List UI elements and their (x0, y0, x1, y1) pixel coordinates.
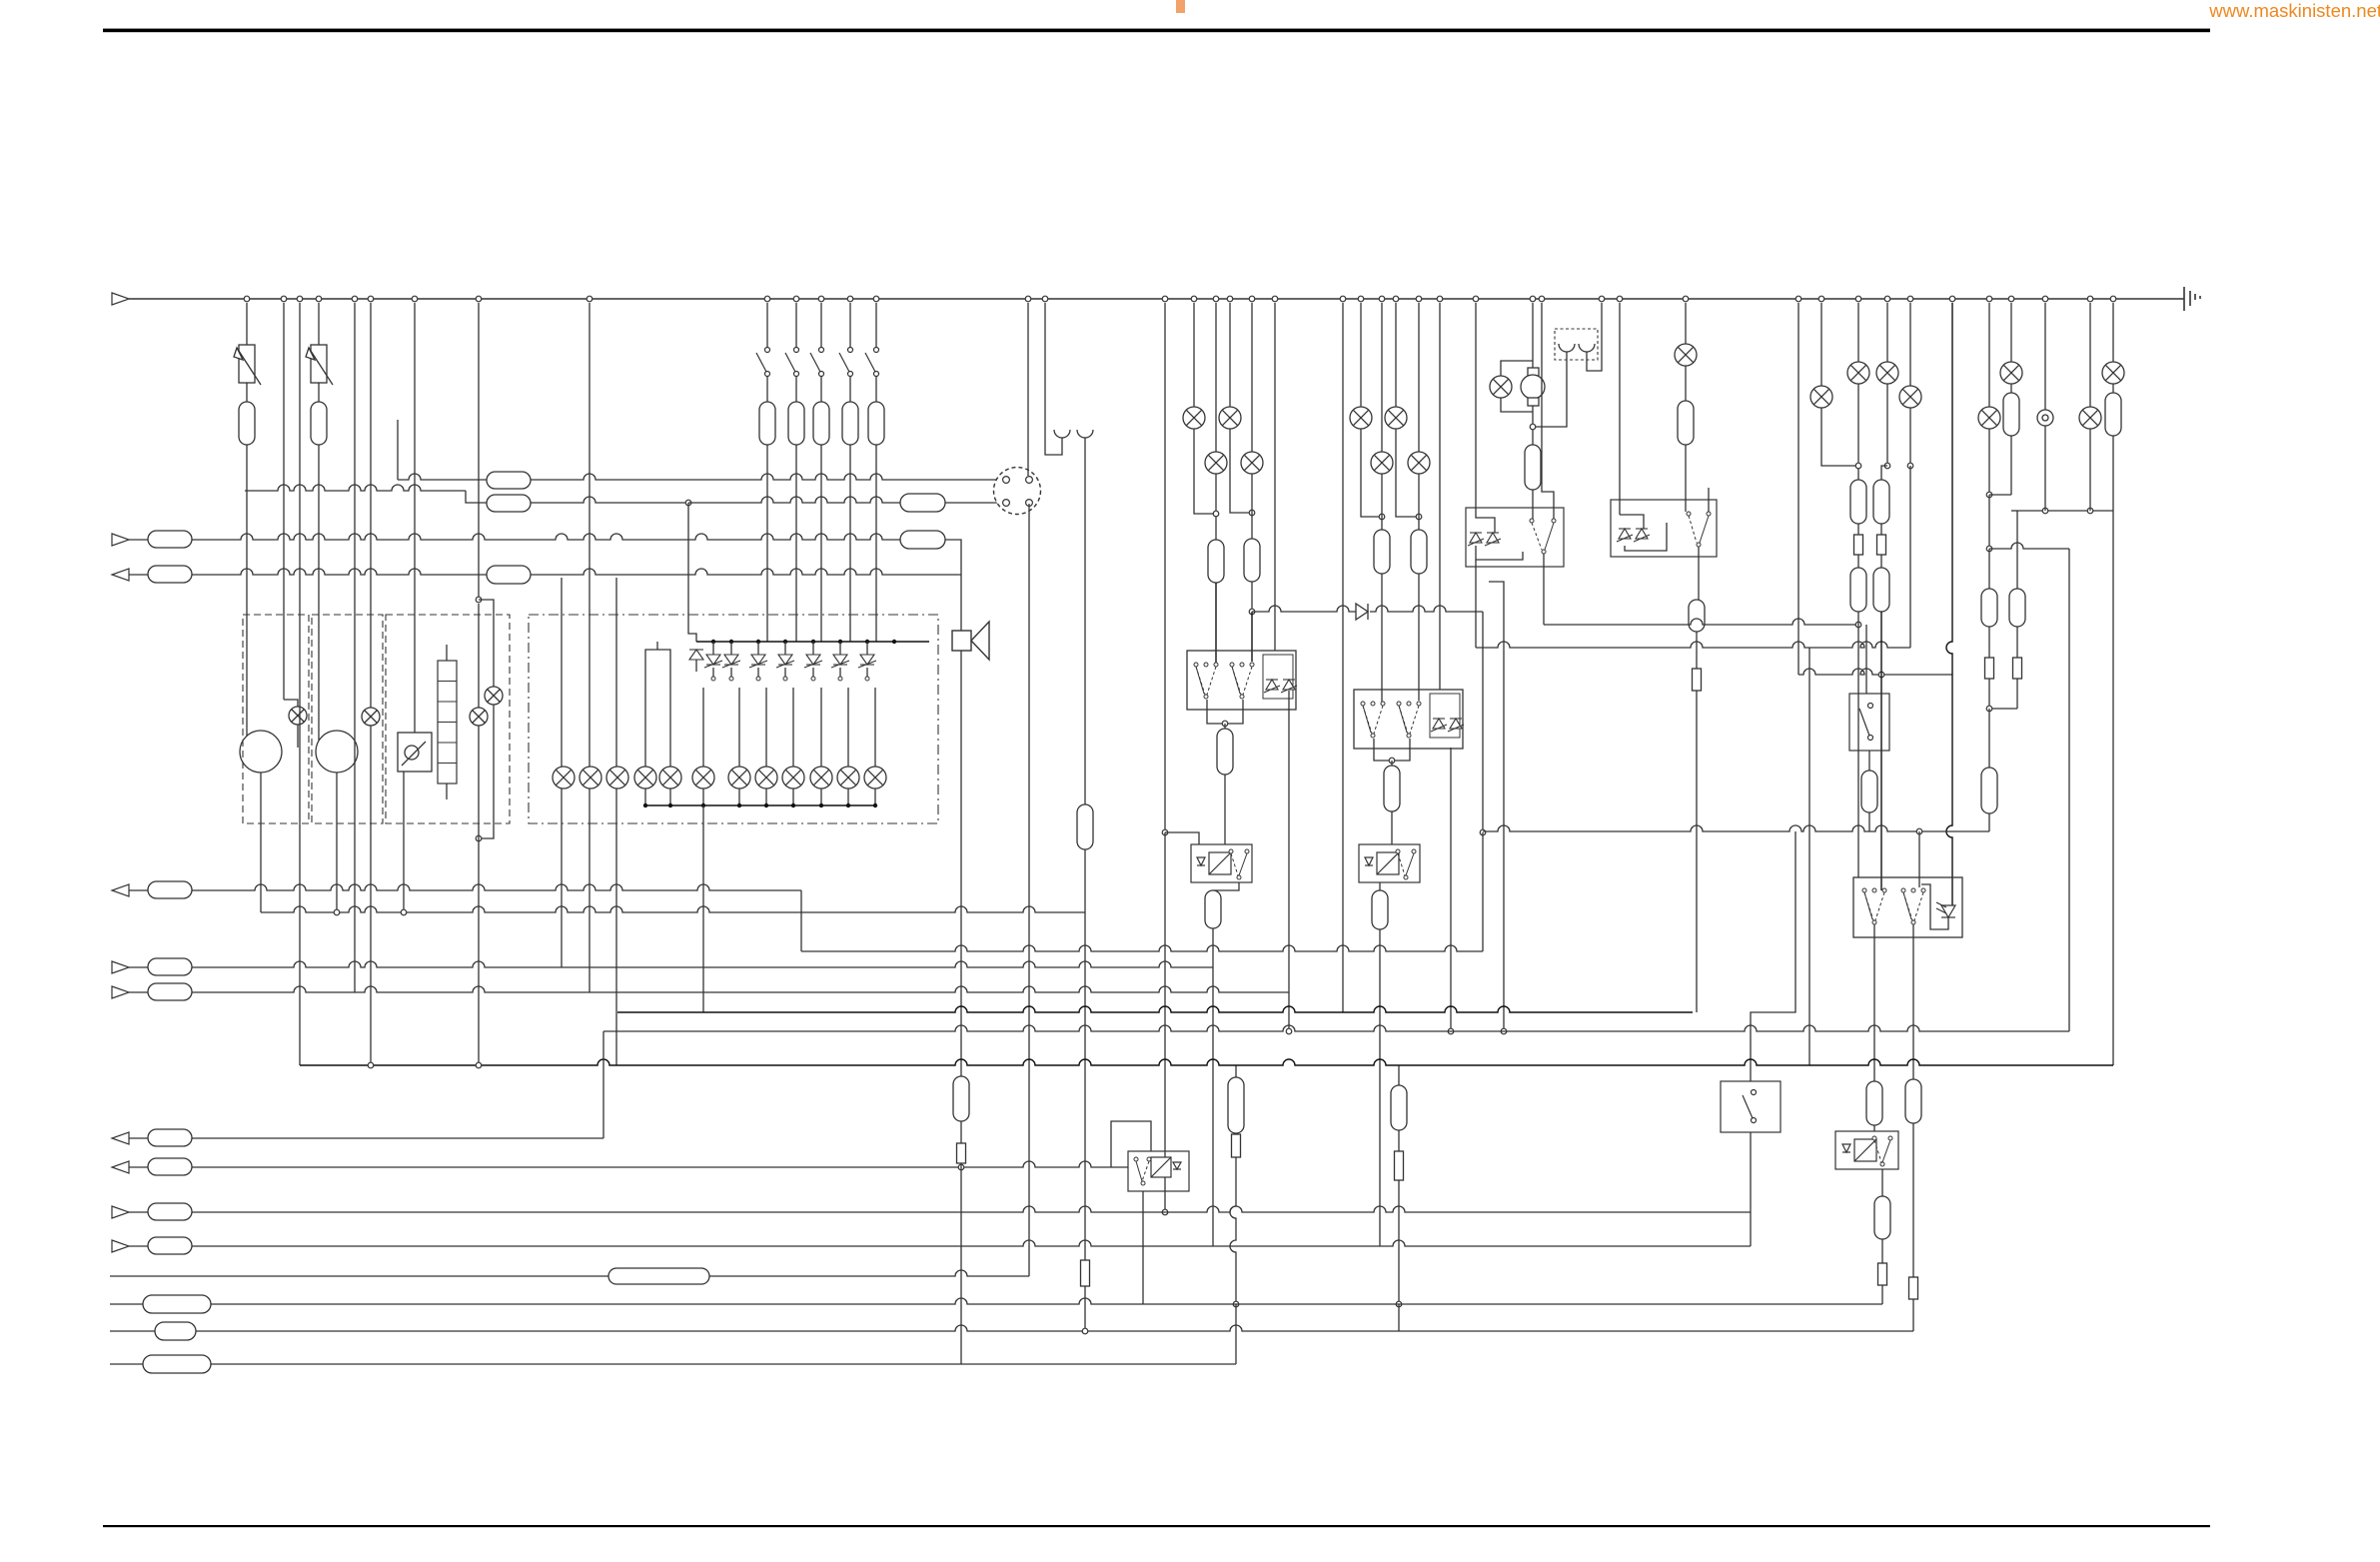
bus node x1344 (1340, 296, 1346, 302)
resistor R13 (1081, 1260, 1090, 1286)
wire relayB out a (1213, 882, 1239, 890)
wire diode5 a (784, 642, 786, 655)
bus node x319 (316, 296, 322, 302)
wire hook1 feed (1045, 303, 1062, 455)
wire lamp down (702, 788, 704, 805)
lamp cluster L7 (606, 767, 628, 788)
wire lamp down (644, 788, 646, 805)
node N102 (1986, 492, 1992, 498)
wire row891 a (129, 889, 148, 891)
lamp L22 (1371, 452, 1393, 474)
wire col479 b (479, 600, 494, 687)
node N89 (1396, 1301, 1402, 1307)
resistor R10 (1878, 1263, 1887, 1285)
wire horn chain b (960, 1163, 962, 1167)
wire col1253 c (1251, 582, 1253, 612)
wire col1889 a (1886, 303, 1888, 362)
connector pin (1003, 500, 1010, 507)
wire hook2 down (1084, 438, 1086, 804)
lamp cluster L16 (864, 767, 886, 788)
fuse F9 (487, 566, 531, 584)
ignition switch S1 (398, 733, 432, 772)
relay K9 (1128, 1151, 1189, 1191)
node N61 (838, 640, 842, 644)
fuse F52 (143, 1355, 211, 1373)
wire fusecol2 c (795, 445, 797, 642)
relay K1 coil (1263, 655, 1293, 699)
wire diode2 b (712, 668, 714, 679)
wire relayC aux out (1450, 748, 1452, 1031)
node N113 (476, 1062, 482, 1068)
wire row1332 a (110, 1330, 155, 1332)
wire diode3 a (730, 642, 732, 655)
node N103 (1986, 546, 1992, 552)
switch S4 (810, 348, 824, 377)
wire col2047 a (2044, 303, 2046, 410)
fuse F44 (148, 958, 192, 975)
lamp L19 (1219, 407, 1241, 429)
bus node x2115 (2110, 296, 2116, 302)
wire col1954 (1946, 303, 1952, 905)
wire row503 d (688, 497, 900, 503)
diode D5 (776, 655, 794, 668)
wire S9 feed (1751, 831, 1795, 1081)
lamp cluster L15 (837, 767, 859, 788)
wire row891 corner (800, 890, 802, 951)
bus node x415 (412, 296, 418, 302)
connector X4 (608, 1268, 709, 1284)
socket X3a (1559, 344, 1575, 352)
wire col1823 a (1820, 303, 1822, 386)
wire col1991 e (1988, 627, 1990, 658)
node N60 (811, 640, 815, 644)
motor M1 (1521, 368, 1545, 406)
lamp L30 (1899, 386, 1921, 408)
lamp L17 (1183, 407, 1205, 429)
wire col1889 c (1881, 466, 1887, 480)
wire col1231 b (1230, 429, 1252, 513)
node N57 (729, 640, 733, 644)
wire hook2 down b (1084, 849, 1086, 912)
switch S5 (839, 348, 853, 377)
switch S9 contact (1743, 1090, 1757, 1123)
bar gauge G3 (438, 661, 457, 783)
node N82 (1213, 511, 1219, 517)
bus node x1231 (1227, 296, 1233, 302)
lamp L2 (362, 708, 380, 726)
lamp cluster L8 (634, 767, 656, 788)
relay K1 (1187, 651, 1296, 710)
bus node x1420 (1416, 296, 1422, 302)
fuse F50 (143, 1295, 211, 1313)
node N56 (711, 640, 715, 644)
node N73 (701, 803, 705, 807)
wire diode5 b (784, 668, 786, 679)
bus node x1543 (1539, 296, 1545, 302)
wire col2019 b (2016, 627, 2018, 658)
wire row1247 a (129, 1245, 148, 1247)
wire v604 (602, 1031, 604, 1138)
switch box S9 (1721, 1081, 1781, 1132)
socket X2b (1077, 430, 1093, 438)
wire relayG out R (1543, 554, 1545, 625)
wire main bus (129, 298, 2184, 300)
wire row993 a (129, 991, 148, 993)
fuse F10 (487, 495, 531, 512)
wire horn chain c (960, 1167, 962, 1364)
switch S11 (1397, 702, 1421, 738)
socket X2a (1054, 430, 1070, 438)
wire row511 (2017, 510, 2113, 512)
node N91 (1448, 1028, 1454, 1034)
wire lamp down (669, 788, 671, 805)
output arrow (112, 569, 129, 581)
node N58 (756, 640, 760, 644)
wire row1168 a (129, 1166, 148, 1168)
node N65 (729, 677, 733, 681)
wire hook3a to motor node (1533, 352, 1567, 427)
node N92 (1379, 514, 1385, 520)
bus node x1621 (1617, 296, 1623, 302)
wire col300 (299, 303, 301, 1065)
wire motor lamp b (1501, 398, 1533, 412)
node N71 (643, 803, 647, 807)
wire col2092 b (2089, 429, 2091, 511)
fuse F16 (1077, 804, 1093, 849)
wire S9 out (1750, 1132, 1752, 1246)
switch S8 contact (1859, 704, 1873, 741)
relay K7 (1853, 877, 1962, 937)
lamp cluster L14 (810, 767, 832, 788)
wire col1344 (1342, 303, 1344, 1012)
wire row1139 a (129, 1137, 148, 1139)
bus input arrow (112, 293, 129, 305)
wire col247 a (246, 303, 248, 345)
lamp L24 (1408, 452, 1430, 474)
wire row503 c (531, 497, 688, 503)
bus node x1253 (1249, 296, 1255, 302)
bus node x1046 (1042, 296, 1048, 302)
wire col2013 c (2010, 436, 2012, 495)
node N88 (1389, 758, 1395, 764)
wire row968 b (192, 961, 1213, 967)
relay K8 (1835, 1131, 1898, 1169)
wire col1217 b (1215, 474, 1217, 540)
node N48 (476, 835, 482, 841)
wire diode6 a (812, 642, 814, 655)
bus node x797 (793, 296, 799, 302)
wire relayH out a (1698, 547, 1700, 600)
wire relayG coil ret (1476, 546, 1523, 560)
relay K7 diode (1936, 902, 1955, 917)
wire row503 e (945, 502, 1002, 504)
resistor R6 (1854, 535, 1863, 555)
wire stub495 (1989, 494, 2011, 496)
fuse F19 (1217, 729, 1233, 775)
bus node x1800 (1795, 296, 1801, 302)
bottom rule (103, 1525, 2210, 1527)
node N77 (819, 803, 823, 807)
fuse F42 (1874, 1196, 1890, 1239)
diode D2 (704, 655, 722, 668)
wire chainA e (1235, 1065, 1237, 1077)
wire relayH coil ret (1625, 523, 1667, 551)
node N59 (783, 640, 787, 644)
wire relayC out a (1374, 739, 1410, 761)
wire col617 a (615, 578, 617, 769)
wire row832 (1483, 825, 1989, 831)
wire row540 b (192, 534, 900, 540)
fuse F33 (1873, 568, 1889, 612)
wire lamp feed (669, 688, 671, 767)
diode D3 (722, 655, 740, 668)
wire row625 (1544, 619, 1858, 625)
top rule (103, 29, 2210, 33)
wire col1991 c (1988, 495, 1990, 549)
wire lamp down (765, 788, 767, 805)
wire row675 (1798, 669, 1952, 675)
wire lamp feed (820, 688, 822, 767)
node N75 (764, 803, 768, 807)
node N72 (668, 803, 672, 807)
wire row968 a (129, 966, 148, 968)
wire fusecol3 c (820, 445, 822, 642)
node N79 (873, 803, 877, 807)
wire row993 b (192, 986, 1289, 992)
wire row1013 (617, 1006, 1693, 1012)
wire chainC h (1398, 1304, 1400, 1331)
node N67 (783, 677, 787, 681)
wire col284 c (297, 725, 299, 748)
node N85 (1480, 829, 1486, 835)
instrument box 1 (243, 615, 309, 823)
wire row1305 b (211, 1298, 1882, 1304)
wire K9 feed (1111, 1121, 1151, 1167)
fuse F46 (148, 1129, 192, 1146)
wire v1505 (1489, 582, 1504, 1031)
fuse F6 (842, 402, 858, 445)
wire lamp feed (702, 688, 704, 767)
wire row540 a (129, 539, 148, 541)
fuse F22 (1384, 766, 1400, 811)
wire col1383 b (1381, 474, 1383, 530)
wire relayH coil a (1620, 515, 1644, 529)
wire row952 (801, 945, 1483, 951)
wire d1 down (695, 660, 697, 672)
node N74 (737, 803, 741, 807)
wire diode4 a (757, 642, 759, 655)
bus node x1362 (1358, 296, 1364, 302)
lamp L27 (1810, 386, 1832, 408)
bus node x1383 (1379, 296, 1385, 302)
wire col1860 c (1857, 524, 1859, 535)
switch S9 (1229, 849, 1249, 879)
wire lamp return rail (645, 804, 875, 806)
wire col1687 b (1685, 366, 1687, 401)
wire fusecol3 b (820, 377, 822, 402)
switch S6 (865, 348, 879, 377)
wire col562 b (561, 788, 563, 967)
output arrow (112, 1161, 129, 1173)
wire col1253 b (1251, 474, 1253, 539)
bus node x1029 (1025, 296, 1031, 302)
wire col479 d (478, 604, 480, 1065)
input arrow (112, 534, 129, 546)
node N112 (368, 1062, 374, 1068)
bus node x1534 (1530, 296, 1536, 302)
wire col1420 a (1418, 303, 1420, 452)
wire rail feed (688, 503, 696, 642)
socket X3b (1579, 344, 1595, 352)
wire motor lamp a (1501, 361, 1533, 376)
switch S8 (1230, 663, 1254, 699)
wire S8 out (1868, 751, 1870, 771)
wire col319 c (318, 445, 320, 741)
wire col2115 c (2112, 436, 2114, 1065)
wire col2019 a (2016, 511, 2018, 589)
fuse F29 (1689, 600, 1705, 632)
wire row1305 a (110, 1303, 143, 1305)
wire diode7 a (839, 642, 841, 655)
lamp L35 (2102, 362, 2124, 384)
wire row1277 a (110, 1275, 608, 1277)
fuse F26 (1411, 530, 1427, 574)
wire relayH stub (1708, 488, 1710, 512)
wire col1912 b (1909, 408, 1911, 466)
wire col1231 a (1229, 303, 1231, 407)
wire row1066 (300, 1059, 2113, 1065)
wire diode8 b (866, 668, 868, 679)
wire lamp feed (765, 688, 767, 767)
node N86 (1222, 721, 1228, 727)
wire col1991 d (1988, 549, 1990, 589)
diode D7 (831, 655, 849, 668)
wire col1911 e (1912, 1299, 1914, 1331)
lamp L34 (2079, 407, 2101, 429)
wire col1166 a (1164, 303, 1166, 832)
fuse F13 (148, 531, 192, 548)
wire col1397 b (1396, 429, 1419, 517)
diode D11 (1431, 719, 1447, 732)
wire relayA out d (1224, 775, 1226, 844)
bus node x247 (244, 296, 250, 302)
relay K5 diodes (1468, 533, 1484, 546)
switch S10 (1361, 702, 1385, 738)
wire col284 (283, 303, 285, 700)
switch S17 (1862, 888, 1886, 924)
wire fusecol4 b (849, 377, 851, 402)
wire relayB out b (1212, 928, 1214, 1246)
wire diode8 a (866, 642, 868, 655)
fuse F41 (1905, 1079, 1921, 1123)
node N106 (2087, 508, 2093, 514)
wire diode2 a (712, 642, 714, 655)
fuse F53 (953, 1076, 969, 1121)
wire col1991 g (1988, 709, 1990, 768)
bus node x300 (297, 296, 303, 302)
wire row480 c (531, 474, 1002, 480)
bus node x2013 (2008, 296, 2014, 302)
wire col371 b (370, 726, 372, 1065)
relay K8 coil (1842, 1139, 1876, 1161)
node N93 (1416, 514, 1422, 520)
fuse F40 (1866, 1081, 1882, 1125)
bus node x2047 (2042, 296, 2048, 302)
fuse F17 (1208, 540, 1224, 583)
fuse F28 (1678, 401, 1694, 445)
wire lamp down (792, 788, 794, 805)
fuse F12 (900, 494, 945, 512)
wire K8 out b (1881, 1239, 1883, 1263)
fuse F14 (900, 531, 945, 549)
wire chainA f (1235, 1133, 1237, 1134)
wire relayC out c (1391, 761, 1393, 766)
connector pin (1003, 477, 1010, 484)
bus node x1603 (1599, 296, 1605, 302)
wire col1811 (1808, 648, 1810, 1065)
wire col2092 a (2089, 303, 2091, 407)
node N69 (838, 677, 842, 681)
switch S2 (756, 348, 770, 377)
wire col1991 b (1988, 429, 1990, 495)
bus node x822 (818, 296, 824, 302)
wire K7 inner (1921, 884, 1941, 929)
wire chainA h (1235, 1304, 1237, 1364)
lamp L26 (1675, 344, 1697, 366)
wire diode row b (1370, 606, 1483, 612)
wire lamp feed (874, 688, 876, 767)
fuse F30 (1850, 480, 1866, 524)
wire diode rail (696, 641, 929, 643)
wire row1365 a (110, 1363, 143, 1365)
wire col1991 h (1988, 813, 1990, 831)
wire row1139 b (192, 1137, 603, 1139)
wire col1217 c (1215, 583, 1217, 663)
fuse F43 (148, 881, 192, 898)
node N119 (1082, 1328, 1088, 1334)
lamp cluster L11 (728, 767, 750, 788)
diode D10 (1264, 680, 1280, 693)
bus node x1687 (1683, 296, 1689, 302)
wire col2013 b (2010, 384, 2012, 393)
indicator ring L33 (2037, 410, 2053, 426)
node N80 (1162, 829, 1168, 835)
fuse F5 (813, 402, 829, 445)
instrument box 2 (312, 615, 383, 823)
wire row540 to horn (945, 540, 961, 631)
node N94 (1530, 424, 1536, 430)
wire relayH out c (1696, 691, 1698, 1012)
wire fusecol1 b (766, 377, 768, 402)
wire col1217 a (1215, 303, 1217, 452)
lamp L28 (1847, 362, 1869, 384)
wire relayH out b (1696, 632, 1698, 669)
lamp cluster L12 (755, 767, 777, 788)
wire fusecol1 a (766, 303, 768, 347)
switch box S8 (1849, 694, 1889, 751)
socket box X3 (1555, 329, 1598, 360)
lamp L32 (2000, 362, 2022, 384)
wire chainC f (1398, 1130, 1400, 1151)
wire col1029 to connector (1027, 303, 1029, 476)
fuse F51 (155, 1322, 196, 1340)
wire row549 (1989, 543, 2069, 549)
wire col1912 c (1909, 466, 1911, 648)
output arrow (112, 1132, 129, 1144)
fuse F34 (1861, 771, 1877, 812)
fuse F7 (868, 402, 884, 445)
node N105 (2042, 508, 2048, 514)
